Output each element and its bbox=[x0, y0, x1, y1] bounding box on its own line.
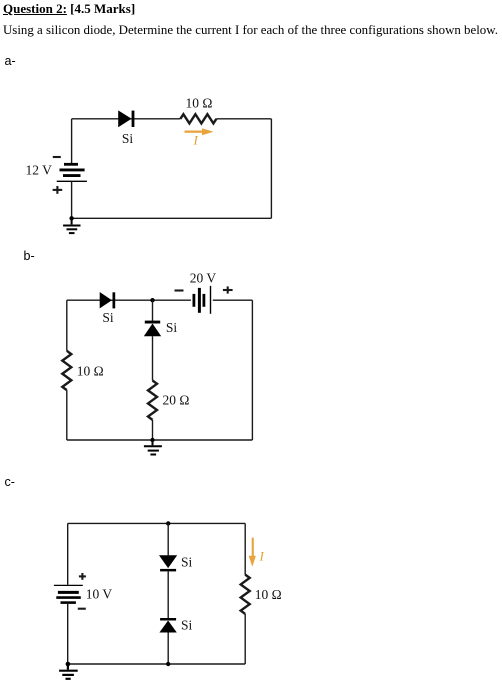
circuit c: top wire bbox=[68, 522, 246, 524]
circuit a: right wire bbox=[270, 119, 272, 219]
svg-text:I: I bbox=[259, 549, 265, 563]
circuit c: middle branch middle wire bbox=[167, 571, 169, 618]
circuit b: right wire bbox=[251, 300, 253, 440]
svg-text:20 Ω: 20 Ω bbox=[163, 393, 190, 408]
circuit c: middle branch lower wire bbox=[167, 633, 169, 665]
circuit b: node junction dot top bbox=[150, 298, 154, 302]
circuit c: ground node junction dot bbox=[66, 662, 71, 667]
circuit b: diode D3 Si (points up) bbox=[144, 321, 161, 337]
circuit a: ground symbol bbox=[63, 218, 80, 233]
circuit a: battery B1 plates bbox=[57, 164, 87, 181]
circuit b: middle branch middle wire bbox=[152, 336, 154, 380]
circuit c: diode D4 Si (points down) bbox=[159, 555, 177, 571]
circuit b: left wire upper segment bbox=[66, 300, 68, 351]
circuit a: left wire lower segment bbox=[71, 181, 73, 218]
svg-text:I: I bbox=[193, 134, 199, 148]
circuit a: top wire right segment bbox=[216, 118, 271, 120]
circuit c: left wire lower segment bbox=[67, 603, 69, 664]
circuit b: middle branch lower wire bbox=[152, 420, 154, 440]
svg-text:10 Ω: 10 Ω bbox=[77, 364, 104, 379]
svg-text:Si: Si bbox=[166, 320, 178, 335]
circuit b: left wire lower segment bbox=[66, 390, 68, 440]
circuit b: resistor R2 10 ohm zigzag bbox=[62, 351, 71, 390]
circuit a: diode D1 Si bbox=[118, 110, 134, 127]
label a bbox=[5, 54, 16, 68]
circuit b: resistor R3 20 ohm zigzag bbox=[148, 381, 157, 420]
label b bbox=[24, 249, 35, 263]
circuit a: current arrow I (orange) bbox=[185, 128, 214, 135]
circuit c: battery B3 plus polarity bbox=[79, 573, 86, 580]
circuit c: node junction dot bottom middle bbox=[166, 662, 170, 666]
title: Question 2 heading bbox=[3, 1, 135, 17]
svg-text:Si: Si bbox=[181, 618, 193, 633]
circuit b: diode D2 Si bbox=[100, 292, 116, 308]
circuit a: ground node junction dot bbox=[69, 216, 73, 220]
circuit c: right wire lower segment bbox=[244, 614, 246, 664]
circuit c: battery B3 minus polarity bbox=[78, 608, 86, 610]
circuit b: ground node junction dot bbox=[150, 438, 154, 442]
circuit b: bottom wire bbox=[67, 439, 253, 441]
body text line bbox=[3, 23, 498, 38]
circuit a: battery B1 plus polarity bbox=[53, 186, 63, 194]
circuit b: battery B2 minus polarity bbox=[175, 289, 184, 291]
svg-text:20 V: 20 V bbox=[190, 271, 217, 286]
svg-text:10 Ω: 10 Ω bbox=[255, 587, 282, 602]
circuit c: resistor R4 10 ohm zigzag bbox=[241, 575, 250, 614]
circuit b: middle branch upper wire bbox=[152, 300, 154, 321]
circuit c: bottom wire bbox=[68, 663, 246, 665]
svg-text:10 V: 10 V bbox=[86, 587, 113, 602]
circuit b: top wire left segment bbox=[67, 299, 191, 301]
circuit b: battery B2 plus polarity bbox=[223, 286, 233, 293]
circuit a: top wire left segment bbox=[72, 118, 181, 120]
circuit c: right wire upper segment bbox=[244, 523, 246, 574]
circuit a: battery B1 minus polarity bbox=[53, 156, 61, 158]
svg-text:10 Ω: 10 Ω bbox=[186, 96, 213, 111]
svg-text:Si: Si bbox=[181, 555, 193, 570]
circuit a: bottom wire bbox=[72, 217, 272, 219]
svg-text:12 V: 12 V bbox=[26, 162, 53, 177]
circuit c: battery B3 plates bbox=[54, 585, 83, 602]
circuit a: resistor R1 10 ohm zigzag bbox=[180, 114, 216, 123]
label c bbox=[5, 475, 15, 489]
circuit b: battery B2 plates bbox=[194, 286, 211, 314]
circuit a: left wire upper segment bbox=[71, 119, 73, 163]
circuit c: current arrow I down (orange) bbox=[249, 538, 256, 567]
circuit c: ground symbol bbox=[59, 664, 78, 679]
circuit c: node junction dot top middle bbox=[166, 521, 170, 525]
circuit b: top wire right segment bbox=[213, 299, 253, 301]
svg-text:Si: Si bbox=[102, 310, 114, 325]
svg-text:Si: Si bbox=[122, 131, 134, 146]
circuit c: diode D5 Si (points up) bbox=[159, 618, 176, 633]
circuit c: left wire upper segment bbox=[67, 523, 69, 584]
circuit b: ground symbol bbox=[144, 440, 162, 455]
circuit c: middle branch upper wire bbox=[167, 523, 169, 555]
